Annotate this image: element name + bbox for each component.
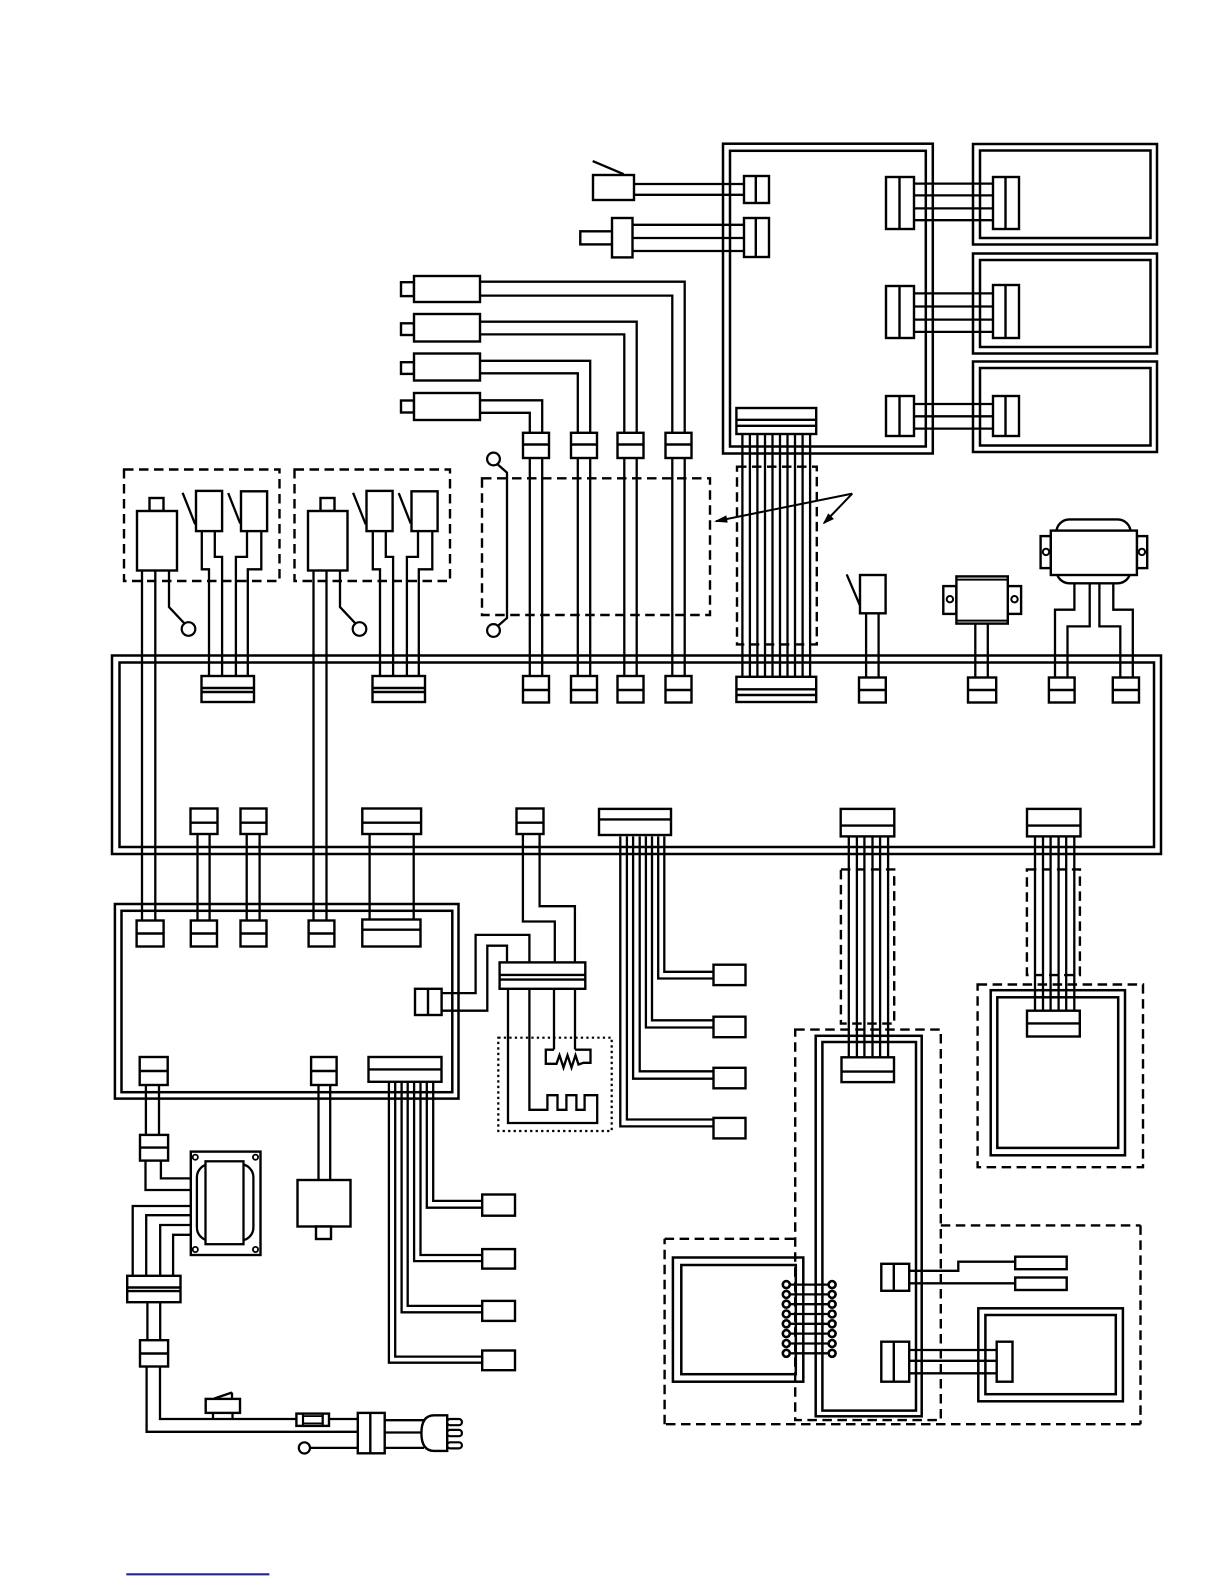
connector — [311, 1057, 337, 1085]
connector — [1027, 1011, 1080, 1037]
footer line — [126, 1573, 269, 1575]
connector — [666, 433, 692, 458]
plug P1 — [593, 175, 634, 200]
wire — [498, 464, 508, 625]
wire — [1055, 583, 1074, 678]
igniter cylinder 4 — [401, 401, 414, 413]
wire — [914, 403, 993, 405]
wire — [160, 1367, 358, 1420]
igniter cylinder 3 — [401, 362, 414, 374]
heater element wires — [508, 989, 597, 1123]
connector — [1049, 678, 1075, 703]
wire — [340, 571, 356, 624]
power plug — [421, 1415, 447, 1451]
dashed enclosure group 1 — [124, 470, 280, 582]
connector — [140, 1057, 168, 1085]
connector — [744, 176, 769, 203]
dashed enclosure group 2 — [295, 470, 451, 582]
annotation arrow — [716, 494, 852, 522]
connector — [571, 676, 597, 703]
flame sensor S2 — [241, 491, 267, 531]
wire — [1034, 836, 1036, 1011]
igniter B — [321, 498, 335, 511]
wire — [215, 531, 222, 677]
flame sensor S3 — [367, 491, 393, 531]
wire — [974, 624, 976, 678]
wire — [480, 282, 685, 433]
wire — [169, 571, 185, 624]
wire — [523, 834, 555, 963]
dashed harness 6-wire right — [1027, 869, 1080, 975]
wire — [865, 613, 867, 678]
connector — [191, 921, 217, 947]
terminal circles — [783, 1281, 790, 1288]
plug P2 — [580, 231, 612, 244]
wire — [160, 1225, 191, 1276]
wire — [671, 458, 673, 676]
wire — [146, 1302, 148, 1340]
wire — [442, 935, 530, 993]
connector 6-wire — [841, 809, 895, 837]
connector — [842, 1057, 895, 1082]
receptacle — [1015, 1278, 1066, 1291]
relay board (top center) outline — [723, 144, 933, 454]
strain relief — [358, 1413, 385, 1453]
dashed enclosure relay module — [795, 1030, 941, 1421]
wire — [577, 458, 579, 676]
wire — [442, 946, 507, 1011]
wire — [419, 531, 433, 677]
console board outline — [115, 904, 459, 1099]
connector — [523, 433, 549, 458]
terminal row wires — [786, 1283, 832, 1285]
buzzer — [943, 586, 956, 614]
connector wide 8-wire — [369, 1057, 442, 1082]
wire — [540, 834, 575, 963]
door switch — [487, 453, 500, 466]
dashed enclosure ribbon — [737, 467, 817, 645]
wire — [480, 322, 637, 433]
main control board outline — [112, 656, 1161, 855]
fan-out connector box — [714, 965, 746, 985]
wire — [1099, 583, 1120, 678]
connector — [500, 962, 586, 988]
flame sensor S1 — [196, 491, 222, 531]
motor — [1056, 519, 1130, 583]
wire — [196, 834, 198, 922]
wire — [373, 531, 380, 677]
dotted enclosure heater — [498, 1038, 611, 1131]
dashed enclosure door switch — [482, 478, 710, 615]
connector — [517, 809, 544, 835]
wire — [480, 400, 542, 433]
connector — [309, 921, 335, 947]
terminal block wide — [127, 1276, 180, 1302]
connector — [241, 809, 267, 835]
lamp box outline — [978, 1308, 1123, 1401]
connector bar — [997, 1342, 1013, 1382]
flame sensor S4 — [412, 491, 438, 531]
terminal block — [140, 1135, 168, 1161]
connector — [202, 676, 255, 702]
wire — [236, 531, 247, 677]
right box 2 outline — [973, 254, 1157, 354]
igniter cylinder 2 — [401, 323, 414, 335]
thermal fuse — [860, 575, 886, 613]
connector — [571, 433, 597, 458]
connector — [1113, 678, 1139, 703]
wire — [317, 1085, 319, 1180]
wire — [664, 836, 713, 971]
dashed enclosure display board — [978, 985, 1143, 1168]
connector — [373, 676, 426, 702]
connector — [618, 433, 644, 458]
dashed enclosure bottom section — [665, 1238, 796, 1240]
connector — [523, 676, 549, 703]
igniter A — [150, 498, 164, 511]
fuse — [296, 1414, 329, 1426]
connector — [241, 921, 267, 947]
wire — [632, 224, 744, 226]
wire — [407, 531, 418, 677]
display board outline — [991, 990, 1125, 1155]
connector — [993, 285, 1019, 338]
wire — [634, 183, 744, 185]
wire — [386, 531, 393, 677]
right box 1 outline — [973, 144, 1157, 245]
wire — [141, 571, 143, 922]
ring terminal — [353, 622, 367, 636]
resistor — [553, 989, 555, 1050]
wire — [161, 1161, 191, 1179]
wire — [385, 1419, 424, 1421]
wire — [310, 1447, 358, 1449]
wire — [1113, 583, 1133, 678]
solenoid valve — [298, 1180, 351, 1227]
ring terminal — [182, 622, 196, 636]
fan-out connector box — [714, 1118, 746, 1139]
fan-out connector box — [714, 1068, 746, 1089]
right box 3 outline — [973, 362, 1157, 453]
connector — [744, 218, 769, 257]
fan-out connector box — [482, 1351, 515, 1371]
connector — [993, 177, 1019, 229]
connector — [415, 989, 442, 1015]
fan-out connector box — [482, 1249, 515, 1269]
connector 8-wire — [599, 809, 671, 835]
connector M2 — [881, 1342, 909, 1382]
terminal block — [140, 1340, 168, 1366]
interlock switch — [206, 1399, 240, 1413]
connector M1 — [881, 1264, 909, 1291]
connector — [993, 396, 1019, 436]
dashed harness 6-wire left — [841, 869, 894, 1023]
connector — [886, 396, 914, 436]
wire — [909, 1282, 1015, 1284]
fan-out connector box — [482, 1195, 515, 1216]
wire — [914, 182, 993, 184]
connector — [137, 921, 164, 947]
wire — [173, 1235, 191, 1276]
wire — [623, 458, 625, 676]
connector — [886, 177, 914, 229]
wire — [1068, 583, 1090, 678]
wire — [146, 1161, 191, 1190]
ribbon cable wires — [741, 434, 743, 678]
connector ribbon top — [736, 408, 816, 434]
wire — [312, 571, 314, 922]
wire — [248, 531, 261, 677]
wire — [529, 458, 531, 676]
keypad box outline — [673, 1258, 803, 1382]
wire — [202, 531, 209, 677]
wire — [914, 292, 993, 294]
transformer — [191, 1152, 261, 1255]
wire — [909, 1349, 997, 1351]
connector — [886, 286, 914, 338]
connector — [191, 809, 218, 835]
wire — [433, 1082, 482, 1201]
wire — [848, 836, 850, 1058]
relay module (tall) outline — [816, 1036, 922, 1417]
wire — [145, 1085, 147, 1136]
connector wide bus — [362, 809, 421, 835]
wire — [146, 1215, 191, 1276]
connector ribbon bottom — [736, 677, 816, 702]
connector wide — [362, 920, 420, 947]
wire — [480, 361, 590, 433]
connector 6-wire — [1027, 809, 1081, 837]
fan-out connector box — [714, 1017, 746, 1037]
connector — [666, 676, 692, 703]
wire — [133, 1206, 191, 1276]
ring terminal — [299, 1442, 310, 1453]
igniter cylinder 1 — [401, 282, 414, 296]
wire — [246, 834, 248, 922]
connector — [859, 678, 886, 703]
wire — [147, 1367, 358, 1432]
wire — [368, 834, 370, 921]
receptacle — [1015, 1257, 1066, 1270]
connector — [968, 678, 996, 703]
wire — [909, 1262, 1015, 1271]
fan-out connector box — [482, 1301, 515, 1321]
connector — [618, 676, 644, 703]
